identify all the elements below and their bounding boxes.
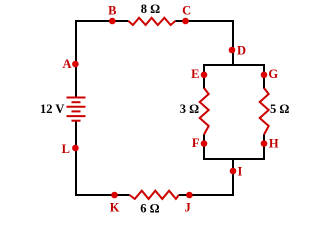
- svg-text:H: H: [269, 136, 279, 150]
- wire right branch upper (box top to 5-ohm, via node G): [263, 64, 265, 89]
- wire left branch lower (3-ohm to box bottom, via node F): [203, 135, 205, 161]
- wire left+top (battery top to top-left corner to 8-ohm resistor, via node A and B): [76, 21, 128, 98]
- wire left-bottom (battery bottom to bottom-left corner to 6-ohm resistor, via node L and K): [76, 121, 130, 195]
- node L: [72, 145, 79, 152]
- node B: [109, 18, 116, 25]
- svg-text:8 Ω: 8 Ω: [141, 2, 160, 16]
- node A: [72, 61, 79, 68]
- svg-text:D: D: [237, 43, 246, 57]
- node I: [230, 168, 237, 175]
- svg-text:B: B: [108, 3, 116, 17]
- node E: [201, 72, 208, 79]
- node J: [186, 192, 193, 199]
- node H: [261, 140, 268, 147]
- wire left branch upper (box top to 3-ohm, via node E): [203, 64, 205, 89]
- svg-text:J: J: [184, 201, 190, 215]
- svg-text:6 Ω: 6 Ω: [140, 201, 159, 215]
- resistor R3 6 ohm (bottom, between K and J): [130, 191, 179, 199]
- svg-text:F: F: [192, 136, 200, 150]
- battery 12V (three cells on left wire): [67, 98, 86, 121]
- resistor R1 8 ohm (top, between B and C): [128, 18, 175, 25]
- node C: [182, 18, 189, 25]
- svg-text:3 Ω: 3 Ω: [180, 102, 199, 116]
- svg-text:C: C: [182, 3, 191, 17]
- node G: [261, 72, 268, 79]
- svg-text:E: E: [191, 67, 199, 81]
- svg-text:12 V: 12 V: [40, 102, 64, 116]
- resistor R2a 3 ohm (left branch, between E and F): [200, 88, 209, 135]
- wire bottom-right (6-ohm resistor to bottom-right corner, up to box bottom, via node J and I): [179, 158, 233, 195]
- svg-text:I: I: [238, 164, 243, 178]
- node K: [111, 192, 118, 199]
- svg-text:G: G: [268, 67, 278, 81]
- resistor R2b 5 ohm (right branch, between G and H): [260, 88, 269, 135]
- svg-text:L: L: [62, 142, 70, 156]
- node F: [201, 140, 208, 147]
- node D: [229, 47, 236, 54]
- wire parallel box bottom: [203, 158, 265, 160]
- wire parallel box top: [203, 64, 265, 66]
- wire right branch lower (5-ohm to box bottom, via node H): [263, 135, 265, 161]
- wire top-right (8-ohm resistor to corner, down to box top, via node C and D): [175, 21, 233, 66]
- svg-text:K: K: [110, 201, 120, 215]
- svg-text:A: A: [62, 57, 71, 71]
- svg-text:5 Ω: 5 Ω: [270, 102, 289, 116]
